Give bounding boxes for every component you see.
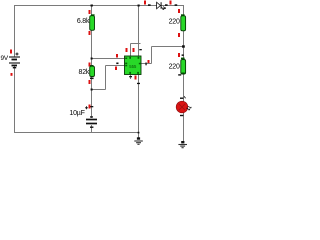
resistor R2 82k [79,63,95,85]
555 pin6 tick [116,63,118,65]
wire top rail from battery to right column [14,5,184,7]
resistor R4 220 (lower right) [169,53,186,76]
resistor R1 6.8k [77,10,95,35]
555 pin7 red bar [116,54,118,58]
wire Vcc drop to 555 pins 4 and 8 [131,5,141,56]
555 pin1 tick [137,83,140,84]
ground (LED cathode) [178,141,187,148]
555 pin5 tick [129,76,132,77]
svg-text:9V: 9V [1,55,9,62]
resistor R3 220 (top right) [169,9,186,37]
ground (555 pin1) [134,137,143,144]
wire 555 pin2/6 net (trigger-threshold) [92,66,125,90]
svg-text:555: 555 [129,64,137,69]
wire 555 pin1 to ground [138,75,140,140]
wire left rail battery column [14,5,16,133]
op-amp/timer U1 555 [125,56,142,75]
555 pin2 red bar [115,67,117,71]
node junction middle column pin7 [91,58,93,60]
svg-text:6.8k: 6.8k [77,18,90,25]
wire right column (diode, 220s, LED) [183,5,185,142]
wire bottom rail [14,132,139,134]
capacitor C1 10uF [69,105,97,128]
555 pin8 red bar [133,48,135,52]
555 pin4 red bar [126,48,128,52]
wire 555 pin7 net (discharge) [92,58,125,60]
555 pin8 tick [139,49,142,50]
555 pin3 red bar [148,60,150,63]
node junction on top rail at 6.8k [91,5,93,7]
wire middle column (6.8k / 82k / capacitor) [91,5,93,133]
node junction right column output [182,45,185,47]
555 bottom red bar [135,76,137,80]
battery B1 9V [1,50,21,76]
node junction bottom rail to ground [138,132,140,134]
wire 555 pin3 output to right column junction [141,47,183,64]
diode D1 [144,1,177,10]
555 pin3 tick [145,63,146,66]
svg-text:10µF: 10µF [69,110,84,117]
wire 555 pin5 stub [130,75,132,80]
svg-text:82k: 82k [79,69,90,76]
svg-text:220: 220 [169,19,180,26]
node junction middle column pin2/6 [91,89,93,91]
node junction on top rail at Vcc drop [138,5,140,7]
svg-text:220: 220 [169,64,180,71]
LED D2 [176,96,191,116]
